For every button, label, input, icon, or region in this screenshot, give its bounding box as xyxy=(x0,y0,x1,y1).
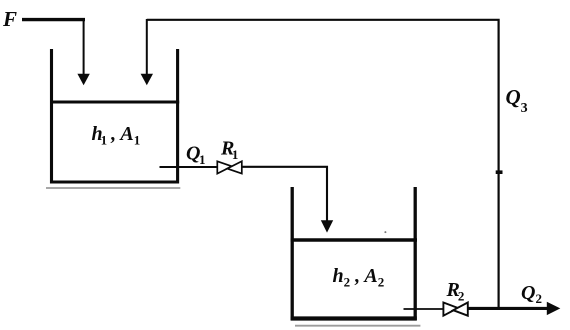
valve R1 xyxy=(217,161,242,173)
label F xyxy=(2,7,17,31)
label Q3 xyxy=(506,85,528,116)
svg-text:h1 , A1: h1 , A1 xyxy=(92,123,141,148)
label R2 xyxy=(446,279,465,304)
label R1 xyxy=(220,137,238,162)
arrow into tank 2 xyxy=(321,220,333,232)
arrow Q2 xyxy=(547,302,561,315)
junction tick on Q3 line xyxy=(496,170,503,174)
pipe from R1 to tank 2 xyxy=(242,167,327,221)
recycle pipe top run and right drop xyxy=(147,20,499,308)
label h1 , A1 xyxy=(92,123,141,148)
tank 1 walls xyxy=(52,49,178,182)
tank 1 liquid level xyxy=(50,100,179,103)
feed arrow into tank 1 xyxy=(77,18,89,85)
svg-text:F: F xyxy=(2,7,17,31)
outlet pipe Q2 xyxy=(468,307,548,310)
tank 1 bottom shadow artifact xyxy=(46,187,180,189)
label Q1 xyxy=(186,142,205,167)
tank 2 outlet stub xyxy=(404,308,444,310)
recycle arrow into tank 1 xyxy=(141,19,153,85)
valve R2 xyxy=(443,303,467,316)
label Q2 xyxy=(521,282,542,306)
label h2 , A2 xyxy=(333,265,385,290)
tank 2 walls xyxy=(291,187,417,319)
svg-text:h2 , A2: h2 , A2 xyxy=(333,265,385,290)
feed pipe from F xyxy=(22,18,85,21)
tank 2 bottom shadow artifact xyxy=(295,325,420,327)
tank 2 liquid level xyxy=(291,238,418,242)
tank 1 outlet stub xyxy=(160,166,218,168)
speck artifact xyxy=(384,231,386,233)
